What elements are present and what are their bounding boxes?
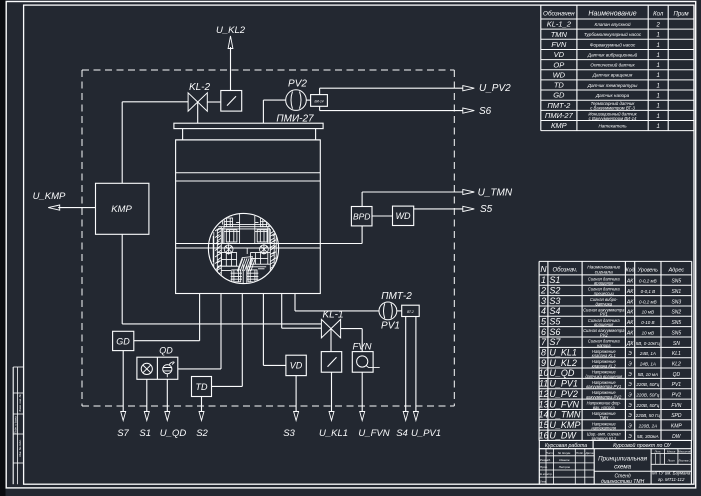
svg-text:VD: VD xyxy=(554,50,565,59)
svg-text:Утв.: Утв. xyxy=(540,479,547,483)
svg-text:2: 2 xyxy=(540,285,546,295)
svg-text:ТМН: ТМН xyxy=(599,415,608,420)
block WD xyxy=(393,206,414,225)
svg-text:Э: Э xyxy=(628,382,632,388)
svg-text:АК: АК xyxy=(626,310,634,316)
svg-text:Клапан впускной: Клапан впускной xyxy=(595,21,631,27)
wire GD down xyxy=(122,351,124,412)
svg-text:ПМТ-2: ПМТ-2 xyxy=(547,101,571,110)
svg-text:6: 6 xyxy=(541,327,546,337)
svg-text:ВИ-14: ВИ-14 xyxy=(314,100,323,104)
svg-text:220В, 50 Гц: 220В, 50 Гц xyxy=(635,413,661,418)
svg-text:Форвакуумный насос: Форвакуумный насос xyxy=(590,41,636,47)
svg-text:QD: QD xyxy=(673,372,681,378)
box VI-14 xyxy=(306,99,310,101)
wire down U_KL1 xyxy=(331,372,333,412)
title block right xyxy=(651,453,691,455)
svg-text:KL2: KL2 xyxy=(672,361,681,367)
vessel body xyxy=(176,140,321,294)
svg-text:FVN: FVN xyxy=(671,403,681,409)
stub VI-14 to wires xyxy=(319,88,321,94)
svg-text:Э: Э xyxy=(628,424,632,430)
svg-text:Наименование: Наименование xyxy=(588,10,636,17)
svg-text:U_QD: U_QD xyxy=(549,368,575,378)
svg-text:220В, 50Гц: 220В, 50Гц xyxy=(635,393,659,398)
svg-text:МГТУ им. Баумана: МГТУ им. Баумана xyxy=(652,471,691,476)
svg-text:U_KL1: U_KL1 xyxy=(549,348,577,358)
svg-text:S6: S6 xyxy=(549,327,560,337)
svg-text:KL-1: KL-1 xyxy=(322,310,343,321)
svg-text:Инв. № подл.: Инв. № подл. xyxy=(18,439,22,457)
svg-text:Принципиальная: Принципиальная xyxy=(598,456,648,463)
svg-text:1: 1 xyxy=(657,33,660,39)
svg-text:0-0,2 мВ: 0-0,2 мВ xyxy=(639,279,657,284)
QD emitter symbol xyxy=(163,365,172,374)
block FVN xyxy=(352,352,373,373)
svg-text:диагностики ТМН: диагностики ТМН xyxy=(601,479,645,485)
svg-text:KL-1_2: KL-1_2 xyxy=(547,20,572,29)
left revision strip xyxy=(12,367,14,484)
svg-text:Подп.: Подп. xyxy=(576,451,584,455)
detail circle xyxy=(208,213,278,283)
arrow S7 xyxy=(121,412,126,421)
arrow U_PV1 xyxy=(413,412,418,421)
gauge PV1 xyxy=(379,302,397,320)
svg-text:1: 1 xyxy=(657,114,660,120)
svg-text:Петров: Петров xyxy=(559,465,571,469)
wire PV2 to flange xyxy=(263,99,285,101)
svg-text:Лист: Лист xyxy=(667,459,676,463)
wire up to U_KL2 xyxy=(230,47,232,91)
svg-text:OP: OP xyxy=(553,60,564,69)
wire U_TMN xyxy=(361,192,363,207)
valve KL-2 xyxy=(188,93,207,111)
svg-text:WD: WD xyxy=(396,211,411,221)
wire QD right down xyxy=(166,379,168,412)
svg-text:1: 1 xyxy=(541,275,546,285)
svg-text:220В, 50Гц: 220В, 50Гц xyxy=(635,382,659,387)
svg-text:1: 1 xyxy=(657,53,660,59)
vessel joint lines upper xyxy=(176,172,321,174)
svg-text:1: 1 xyxy=(657,94,660,100)
arrow U_FVN xyxy=(360,412,365,421)
svg-text:SN5: SN5 xyxy=(671,279,681,285)
svg-text:14: 14 xyxy=(538,410,548,420)
svg-text:Листов 1: Листов 1 xyxy=(677,459,691,463)
svg-text:S6: S6 xyxy=(479,106,492,117)
wire VD down xyxy=(295,376,297,412)
wire U_PV2 xyxy=(320,87,463,89)
svg-text:QD: QD xyxy=(159,346,173,356)
svg-text:Разраб.: Разраб. xyxy=(540,458,551,462)
svg-text:U_PV1: U_PV1 xyxy=(411,428,441,439)
svg-text:U_TMN: U_TMN xyxy=(478,188,513,199)
svg-text:U_TMN: U_TMN xyxy=(549,410,580,420)
svg-text:S2: S2 xyxy=(196,428,208,439)
title block left grid xyxy=(538,449,540,485)
svg-text:S1: S1 xyxy=(139,428,151,439)
svg-text:Датчик напора: Датчик напора xyxy=(595,93,630,98)
wire U_PV1 xyxy=(415,317,417,413)
svg-text:PV1: PV1 xyxy=(672,382,682,388)
svg-text:12: 12 xyxy=(538,389,548,399)
gauge PV2 circle xyxy=(286,90,307,111)
valve KL-1 xyxy=(321,319,340,337)
svg-text:напора: напора xyxy=(597,343,611,348)
svg-text:10: 10 xyxy=(538,368,548,378)
svg-text:WD: WD xyxy=(553,70,566,79)
wire TD down xyxy=(201,397,203,413)
driver box KL2 xyxy=(221,91,242,112)
svg-text:U_KL1: U_KL1 xyxy=(319,428,348,439)
svg-text:Э: Э xyxy=(628,393,632,399)
svg-text:SN5: SN5 xyxy=(671,320,681,326)
svg-text:1: 1 xyxy=(657,124,660,130)
svg-text:вакуумметра PV2: вакуумметра PV2 xyxy=(586,395,622,400)
wire vessel to GD xyxy=(199,294,201,341)
svg-text:Курсовая работа: Курсовая работа xyxy=(545,443,587,449)
svg-text:Лист: Лист xyxy=(545,451,554,455)
svg-text:S5: S5 xyxy=(549,316,561,326)
svg-text:с Вакуумметром ВТ-3: с Вакуумметром ВТ-3 xyxy=(590,106,635,111)
signal table xyxy=(538,261,540,440)
svg-text:9: 9 xyxy=(541,358,546,368)
wire vessel to PV1 xyxy=(294,294,296,311)
svg-text:PV2: PV2 xyxy=(672,393,682,399)
svg-text:FVN: FVN xyxy=(353,342,372,353)
svg-text:8: 8 xyxy=(541,348,546,358)
svg-text:ДК: ДК xyxy=(626,341,635,347)
svg-text:схема: схема xyxy=(614,463,632,470)
svg-text:Э: Э xyxy=(628,361,632,367)
svg-text:натекателя: натекателя xyxy=(592,426,617,431)
svg-text:Лит.: Лит. xyxy=(654,449,662,453)
svg-text:0-0,1 В: 0-0,1 В xyxy=(641,289,656,294)
box VT-2 xyxy=(397,310,402,312)
svg-text:24В, 1А: 24В, 1А xyxy=(639,361,656,366)
svg-text:Натекатель: Натекатель xyxy=(598,123,627,128)
svg-text:АК: АК xyxy=(626,279,634,285)
svg-text:Курсовой проект по ОУ: Курсовой проект по ОУ xyxy=(613,442,671,449)
svg-text:Масштаб: Масштаб xyxy=(678,449,691,453)
svg-text:GD: GD xyxy=(553,91,565,100)
svg-text:VD: VD xyxy=(290,361,303,371)
svg-text:0-10 В: 0-10 В xyxy=(641,320,654,325)
svg-text:датчика вращения: датчика вращения xyxy=(585,374,623,379)
svg-text:вращения: вращения xyxy=(594,281,614,286)
svg-text:вак. насоса: вак. насоса xyxy=(593,405,615,410)
svg-text:1: 1 xyxy=(657,43,660,49)
vessel neck plate xyxy=(182,129,184,140)
svg-text:ВТ-2: ВТ-2 xyxy=(407,310,414,314)
wire vessel to BPD xyxy=(279,243,363,245)
svg-text:Адрес: Адрес xyxy=(667,268,684,274)
svg-text:Дата: Дата xyxy=(585,451,594,455)
svg-text:S4: S4 xyxy=(396,428,408,439)
svg-text:16: 16 xyxy=(538,430,548,440)
svg-text:Кол: Кол xyxy=(653,11,664,17)
svg-text:15: 15 xyxy=(538,420,549,430)
svg-text:АК: АК xyxy=(626,320,634,326)
block QD xyxy=(137,357,178,379)
svg-text:сигнала: сигнала xyxy=(595,271,613,276)
svg-text:S2: S2 xyxy=(549,285,560,295)
svg-text:клапана KL1: клапана KL1 xyxy=(592,353,616,358)
svg-text:вакуумметра PV1: вакуумметра PV1 xyxy=(586,384,621,389)
wire KL-2 to driver box xyxy=(207,101,221,103)
svg-text:1: 1 xyxy=(657,104,660,110)
svg-text:гр. МТ11-112: гр. МТ11-112 xyxy=(658,477,685,482)
svg-text:220В, 2А: 220В, 2А xyxy=(638,424,658,429)
svg-text:U_DW: U_DW xyxy=(549,430,577,440)
wire KMP top to KL-2 xyxy=(121,102,123,184)
wire BPD-WD xyxy=(372,215,393,217)
svg-text:TD: TD xyxy=(554,81,565,90)
wire S6 xyxy=(320,110,463,112)
svg-text:АК: АК xyxy=(626,289,634,295)
svg-text:Уровень: Уровень xyxy=(638,268,658,274)
svg-text:0-0,2 мВ: 0-0,2 мВ xyxy=(639,299,657,304)
wire vessel to KL-1 xyxy=(281,294,283,329)
svg-text:SN5: SN5 xyxy=(671,330,681,336)
svg-text:S7: S7 xyxy=(117,428,129,439)
svg-text:GD: GD xyxy=(116,337,130,347)
svg-text:SN: SN xyxy=(673,341,680,347)
svg-text:BPD: BPD xyxy=(353,212,370,222)
svg-text:S3: S3 xyxy=(549,296,560,306)
title block middle xyxy=(593,449,595,485)
svg-text:Масса: Масса xyxy=(667,449,676,453)
svg-text:KMP: KMP xyxy=(111,204,132,215)
svg-text:датчика: датчика xyxy=(595,301,612,306)
svg-text:АК: АК xyxy=(626,299,634,305)
svg-text:вращения: вращения xyxy=(594,322,614,327)
svg-text:U_FVN: U_FVN xyxy=(358,428,389,439)
svg-text:TD: TD xyxy=(196,382,208,392)
svg-text:U_PV2: U_PV2 xyxy=(549,389,578,399)
svg-text:10 мВ: 10 мВ xyxy=(642,310,654,315)
svg-text:5В, 0-10кГц: 5В, 0-10кГц xyxy=(636,341,661,346)
wire QD left down xyxy=(146,379,148,412)
svg-text:U_FVN: U_FVN xyxy=(549,399,579,409)
svg-text:220В, 50Гц: 220В, 50Гц xyxy=(635,403,659,408)
wire KL-2 down to flange xyxy=(197,102,199,123)
svg-text:24В, 1А: 24В, 1А xyxy=(639,351,656,356)
component table xyxy=(540,5,542,131)
vessel joint lines lower xyxy=(176,243,209,245)
svg-text:U_KL2: U_KL2 xyxy=(549,358,577,368)
svg-text:KMP: KMP xyxy=(671,424,683,430)
block GD xyxy=(113,331,134,350)
svg-text:Датчик вибрационный: Датчик вибрационный xyxy=(587,51,638,57)
svg-text:SN1: SN1 xyxy=(671,289,681,295)
arrow S4 xyxy=(403,412,408,421)
svg-text:S5: S5 xyxy=(480,204,493,215)
wire U_KMP xyxy=(58,207,95,209)
arrow S3 xyxy=(294,412,299,421)
svg-text:Оптический датчик: Оптический датчик xyxy=(590,62,635,68)
svg-text:KL-2: KL-2 xyxy=(189,82,211,93)
wire vessel to TD xyxy=(241,294,243,387)
svg-text:PV2: PV2 xyxy=(600,332,608,337)
svg-text:ПМИ-27: ПМИ-27 xyxy=(545,111,574,120)
svg-text:U_QD: U_QD xyxy=(160,428,187,439)
svg-text:PV2: PV2 xyxy=(288,79,307,90)
wire KMP bottom to KL-1 xyxy=(121,234,123,324)
wire S5 xyxy=(414,208,463,210)
svg-text:ПМТ-2: ПМТ-2 xyxy=(381,291,412,302)
svg-text:Э: Э xyxy=(628,434,632,440)
svg-text:клапана KL2: клапана KL2 xyxy=(592,363,617,368)
svg-text:PV1: PV1 xyxy=(381,321,400,332)
svg-text:DW: DW xyxy=(672,434,682,440)
arrow S1 xyxy=(144,412,149,421)
svg-text:TMN: TMN xyxy=(551,30,568,39)
svg-text:АК: АК xyxy=(626,330,634,336)
svg-text:Обозначен: Обозначен xyxy=(543,9,575,17)
block TD xyxy=(192,377,212,397)
svg-text:прецессии: прецессии xyxy=(594,291,615,296)
svg-text:КМР: КМР xyxy=(551,121,567,130)
svg-text:SN2: SN2 xyxy=(671,310,681,316)
svg-text:Э: Э xyxy=(628,372,632,378)
svg-text:13: 13 xyxy=(538,399,548,409)
vessel joint lines across circle xyxy=(209,243,279,245)
svg-text:KL1: KL1 xyxy=(672,351,681,357)
wire KL-1 down xyxy=(330,329,332,352)
svg-text:1: 1 xyxy=(657,83,660,89)
svg-text:U_KMP: U_KMP xyxy=(33,191,66,202)
dashed boundary box xyxy=(82,69,454,71)
title block xyxy=(539,439,691,441)
block VD xyxy=(286,355,306,375)
arrow U_KL1 xyxy=(329,412,334,421)
svg-text:Код: Код xyxy=(626,268,635,274)
arrow U_QD xyxy=(165,412,170,421)
svg-text:Э: Э xyxy=(628,413,632,419)
svg-text:U_KMP: U_KMP xyxy=(549,420,580,430)
svg-text:3: 3 xyxy=(541,296,546,306)
svg-text:Иванов: Иванов xyxy=(559,458,570,462)
svg-text:PV1: PV1 xyxy=(600,312,608,317)
svg-text:Прим: Прим xyxy=(674,11,689,17)
QD lamp symbol xyxy=(141,363,152,374)
wire FVN down xyxy=(361,372,363,412)
svg-text:Э: Э xyxy=(628,403,632,409)
svg-text:Подп. и дата: Подп. и дата xyxy=(14,416,18,434)
block KMP xyxy=(96,183,149,234)
svg-text:5В, 10 мА: 5В, 10 мА xyxy=(638,372,658,377)
svg-text:4: 4 xyxy=(541,306,546,316)
svg-text:SN3: SN3 xyxy=(671,299,681,305)
svg-text:Обознач.: Обознач. xyxy=(552,268,577,274)
svg-text:5В, 300мА: 5В, 300мА xyxy=(637,434,659,439)
svg-text:S7: S7 xyxy=(549,337,561,347)
svg-text:Турбомолекулярный насос: Турбомолекулярный насос xyxy=(584,31,642,37)
svg-text:Пров.: Пров. xyxy=(540,465,548,469)
svg-text:S1: S1 xyxy=(549,275,560,285)
block BPD xyxy=(351,207,372,226)
svg-text:№ докум.: № докум. xyxy=(558,451,571,455)
vessel top flange xyxy=(174,123,323,128)
svg-text:U_PV2: U_PV2 xyxy=(479,83,511,94)
svg-text:U_KL2: U_KL2 xyxy=(216,25,246,36)
arrow U_KL2 xyxy=(228,36,233,49)
wire vessel to VD xyxy=(262,294,264,366)
svg-text:10 мВ: 10 мВ xyxy=(642,330,654,335)
svg-text:1: 1 xyxy=(657,73,660,79)
svg-text:N: N xyxy=(540,264,547,274)
arrow U_KMP xyxy=(48,205,60,210)
svg-text:2: 2 xyxy=(656,22,661,28)
svg-text:Датчик температуры: Датчик температуры xyxy=(587,83,638,88)
wire vessel to QD xyxy=(220,294,222,369)
wire KL-1 right to FVN xyxy=(341,328,363,330)
svg-text:Э: Э xyxy=(628,351,632,357)
svg-text:FVN: FVN xyxy=(551,40,567,49)
svg-text:S4: S4 xyxy=(549,306,560,316)
svg-text:11: 11 xyxy=(539,379,548,389)
svg-text:S3: S3 xyxy=(283,428,295,439)
driver box KL1 xyxy=(321,352,341,373)
arrow S2 xyxy=(199,412,204,421)
wire S4 xyxy=(405,317,407,413)
svg-text:с Вакуумметром ВИ-14: с Вакуумметром ВИ-14 xyxy=(589,116,637,121)
svg-text:1: 1 xyxy=(657,63,660,69)
svg-text:Датчик вращения: Датчик вращения xyxy=(592,73,633,78)
svg-text:Н.контр.: Н.контр. xyxy=(540,472,553,476)
svg-text:U_PV1: U_PV1 xyxy=(549,379,578,389)
svg-text:SPD: SPD xyxy=(671,413,682,419)
svg-text:Взам. инв. №: Взам. инв. № xyxy=(18,394,22,411)
